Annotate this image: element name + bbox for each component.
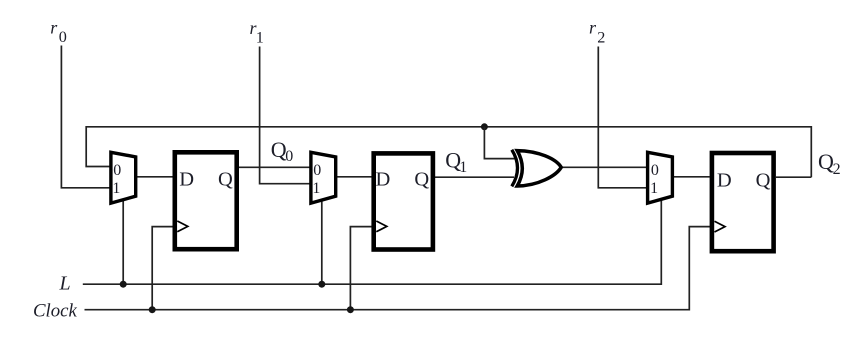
- svg-text:1: 1: [256, 28, 264, 46]
- wire mux2 select: [321, 200, 323, 284]
- svg-text:Q: Q: [756, 170, 771, 192]
- junction dot mux1 select on L: [120, 281, 127, 288]
- svg-text:r: r: [50, 18, 58, 38]
- svg-text:1: 1: [312, 180, 320, 197]
- svg-text:1: 1: [650, 180, 658, 197]
- svg-text:2: 2: [833, 161, 841, 178]
- svg-text:D: D: [179, 168, 194, 190]
- flip-flop FF3: [712, 153, 774, 251]
- wire FF1 Q to mux2 (node Q0): [239, 166, 311, 168]
- junction dot FF1 clock on Clock: [149, 306, 156, 313]
- svg-text:Clock: Clock: [33, 301, 77, 322]
- svg-text:0: 0: [59, 28, 67, 46]
- wire XOR tap: [484, 127, 514, 159]
- svg-text:0: 0: [285, 148, 293, 165]
- wire mux1 select: [122, 200, 124, 284]
- label r2: [589, 18, 605, 47]
- node label Q2: [818, 149, 841, 178]
- flip-flop FF2 clock triangle: [376, 221, 387, 232]
- svg-text:L: L: [59, 273, 71, 295]
- svg-text:Q: Q: [218, 168, 233, 190]
- mux U1 (2-to-1): [111, 152, 136, 203]
- svg-text:0: 0: [313, 162, 321, 179]
- wire feedback Q2 top: [86, 127, 811, 177]
- svg-text:1: 1: [459, 159, 467, 176]
- svg-text:Q: Q: [414, 169, 429, 191]
- flip-flop FF3 clock triangle: [715, 221, 726, 232]
- svg-text:0: 0: [651, 162, 659, 179]
- wire FF2 Q to XOR (node Q1): [435, 176, 514, 178]
- wire Clock line: [85, 227, 711, 310]
- node label Q0: [271, 137, 293, 165]
- flip-flop FF1: [175, 152, 237, 249]
- flip-flop FF1 clock triangle: [177, 221, 188, 232]
- mux U3 (2-to-1): [648, 152, 673, 203]
- xor gate G1 input arc: [512, 150, 518, 187]
- junction dot mux2 select on L: [318, 281, 325, 288]
- label r1: [250, 18, 264, 47]
- svg-text:D: D: [376, 169, 391, 191]
- wire XOR output to mux3: [561, 166, 648, 168]
- svg-text:2: 2: [597, 28, 605, 46]
- wire L line: [83, 200, 662, 285]
- xor gate G1 body: [517, 151, 561, 186]
- svg-text:D: D: [717, 170, 732, 192]
- node label Q1: [445, 148, 467, 176]
- wire FF2 clock branch: [350, 227, 371, 310]
- wire mux1 output to FF1 D: [136, 176, 173, 178]
- wire mux3 output to FF3 D: [673, 176, 710, 178]
- mux U2 (2-to-1): [311, 152, 336, 203]
- wire r0 lead: [61, 46, 110, 188]
- wire r1 lead: [260, 47, 311, 184]
- wire FF3 Q to feedback: [776, 176, 811, 178]
- svg-text:r: r: [589, 18, 597, 38]
- label r0: [50, 18, 66, 47]
- svg-text:Q: Q: [818, 149, 834, 174]
- wire FF1 clock branch: [152, 227, 173, 310]
- wire r2 lead: [598, 47, 647, 188]
- junction dot FF2 clock on Clock: [347, 306, 354, 313]
- svg-text:0: 0: [113, 162, 121, 179]
- junction dot feedback/XOR tap: [481, 123, 488, 130]
- svg-text:1: 1: [112, 180, 120, 197]
- wire mux2 output to FF2 D: [336, 176, 372, 178]
- flip-flop FF2: [374, 153, 433, 249]
